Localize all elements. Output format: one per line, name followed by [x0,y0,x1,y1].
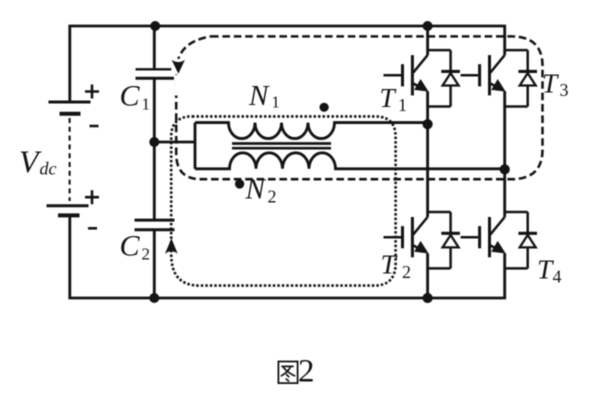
svg-text:2: 2 [402,262,411,282]
svg-text:T: T [537,253,554,284]
svg-text:2: 2 [268,187,277,207]
svg-text:T: T [381,249,398,280]
svg-text:T: T [380,82,397,113]
svg-text:1: 1 [272,93,280,112]
svg-text:dc: dc [40,159,57,179]
svg-text:N: N [248,80,270,112]
svg-text:3: 3 [560,80,569,100]
svg-text:N: N [245,174,267,206]
svg-text:2: 2 [142,245,151,264]
svg-text:C: C [120,80,141,113]
svg-text:4: 4 [553,267,562,287]
svg-text:2: 2 [298,354,315,390]
svg-text:1: 1 [142,95,151,114]
svg-text:T: T [542,67,559,98]
svg-text:1: 1 [398,95,407,115]
svg-text:C: C [120,230,141,263]
